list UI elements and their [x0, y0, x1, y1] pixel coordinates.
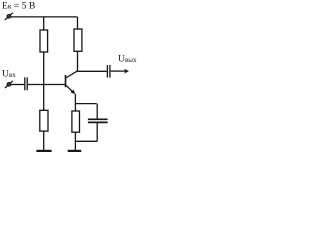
- wire bypass cap bottom lead: [96, 123, 98, 142]
- wire input lead: [11, 84, 25, 86]
- ground right: [68, 150, 82, 152]
- wire R1 top lead: [43, 17, 45, 30]
- ground left: [36, 150, 51, 152]
- resistor R3 emitter: [72, 111, 80, 132]
- resistor R1: [40, 30, 48, 52]
- wire output arrow: [111, 70, 126, 72]
- svg-text:Uвых: Uвых: [118, 54, 137, 65]
- capacitor C2 output: [107, 65, 110, 78]
- wire R2 top lead: [77, 17, 79, 29]
- input terminal: [5, 81, 13, 88]
- transistor Q1: [66, 71, 78, 94]
- wire bypass cap top lead: [96, 104, 98, 120]
- supply terminal Ek: [5, 13, 13, 20]
- resistor R2: [74, 29, 82, 51]
- wire emitter node to bypass branch: [75, 103, 96, 105]
- wire R1 bottom lead to base node: [43, 52, 45, 85]
- svg-text:Ек = 5 В: Ек = 5 В: [2, 1, 35, 12]
- wire R3 bottom lead to ground: [74, 132, 76, 150]
- wire R4 top lead from base node: [43, 85, 45, 111]
- wire emitter lead down: [74, 94, 76, 111]
- wire base lead: [28, 84, 65, 86]
- resistor R4: [40, 110, 48, 131]
- capacitor C1 input: [25, 77, 27, 90]
- wire R4 bottom lead: [43, 131, 45, 150]
- svg-text:Uвх: Uвх: [2, 69, 16, 80]
- wire bypass return to emitter resistor bottom: [75, 140, 97, 142]
- node output arrowhead: [124, 69, 129, 74]
- capacitor C3 emitter bypass: [88, 119, 108, 122]
- wire R2 bottom lead to collector node: [77, 51, 79, 71]
- wire supply rail: [11, 16, 78, 18]
- wire collector to output cap: [78, 70, 107, 72]
